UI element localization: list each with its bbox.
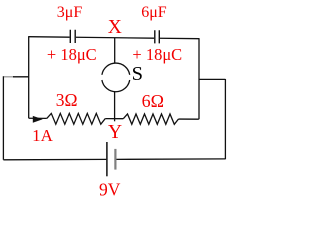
svg-text:9V: 9V bbox=[99, 180, 121, 200]
svg-text:+ 18μC: + 18μC bbox=[47, 45, 97, 64]
svg-text:6Ω: 6Ω bbox=[142, 91, 164, 111]
svg-text:Y: Y bbox=[108, 122, 122, 143]
svg-text:+ 18μC: + 18μC bbox=[132, 45, 182, 64]
svg-text:6μF: 6μF bbox=[141, 4, 167, 21]
svg-text:S: S bbox=[132, 63, 143, 85]
svg-text:3Ω: 3Ω bbox=[56, 90, 78, 110]
svg-text:X: X bbox=[108, 17, 122, 38]
svg-text:1A: 1A bbox=[32, 126, 54, 145]
svg-text:3μF: 3μF bbox=[57, 4, 83, 21]
